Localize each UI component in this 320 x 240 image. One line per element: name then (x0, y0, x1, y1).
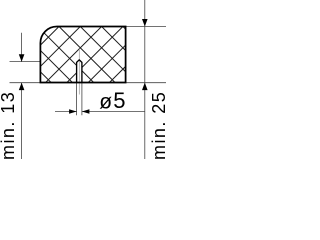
svg-text:5: 5 (113, 88, 125, 113)
svg-text:min. 13: min. 13 (0, 91, 18, 159)
svg-text:min. 25: min. 25 (149, 91, 166, 159)
svg-text:ø: ø (99, 90, 112, 113)
